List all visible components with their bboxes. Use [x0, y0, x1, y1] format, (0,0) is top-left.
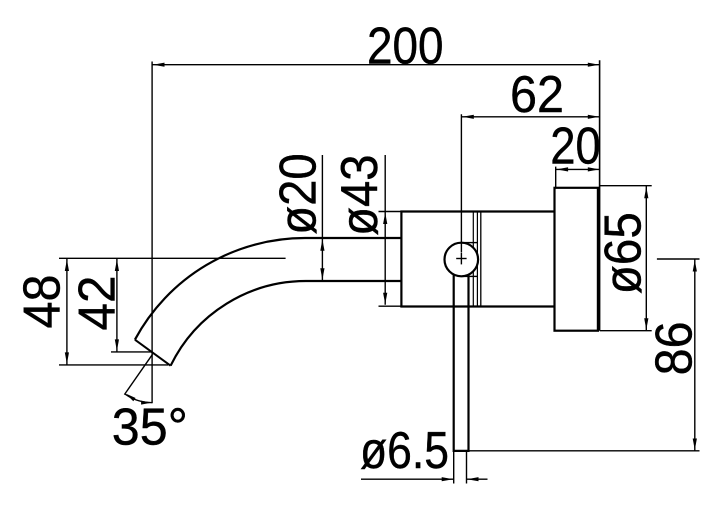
35deg axis line [124, 354, 152, 394]
86 bottom extension [469, 450, 700, 452]
o43 top extension [379, 211, 402, 213]
62 extension inside ball [460, 244, 462, 253]
20 left extension line [555, 167, 557, 188]
62 extension line to pivot center [460, 114, 462, 250]
spout upper outline [135, 238, 402, 340]
dimension line 48 [66, 259, 68, 365]
svg-text:200: 200 [367, 17, 444, 75]
svg-text:ø6.5: ø6.5 [360, 422, 449, 480]
o65 top extension [600, 185, 652, 187]
dimension line o65 [645, 186, 647, 331]
lever rod [454, 262, 469, 451]
48 bottom extension [59, 364, 168, 366]
svg-text:62: 62 [510, 66, 564, 124]
svg-text:ø20: ø20 [269, 153, 327, 235]
dimension line o20 [321, 155, 323, 280]
o65 bottom extension [600, 330, 652, 332]
valve body (side view) [401, 212, 554, 307]
svg-text:86: 86 [646, 321, 704, 375]
o43 bottom extension [379, 305, 402, 307]
dimension line 200 [152, 64, 600, 66]
body seam line B [476, 212, 478, 307]
35deg arc [125, 394, 152, 403]
pivot center cross [456, 258, 466, 260]
dimension line 86 [694, 259, 696, 450]
48-42 top extension [59, 257, 286, 259]
body seam line C [480, 212, 482, 307]
svg-text:42: 42 [68, 276, 126, 331]
dimension line o43 [384, 155, 386, 305]
86 top extension [657, 258, 700, 260]
wall line [599, 60, 601, 330]
spout lower outline [171, 281, 402, 366]
wall flange [555, 188, 598, 331]
dimension line o6.5 [361, 478, 454, 480]
42 bottom extension [111, 351, 152, 353]
svg-text:20: 20 [550, 117, 601, 175]
o6.5 right extension [466, 452, 468, 484]
dimension line 20 [556, 168, 600, 170]
cartridge tab bottom edge [462, 275, 478, 277]
handle pivot ball [445, 243, 479, 277]
svg-text:ø43: ø43 [331, 154, 389, 236]
svg-text:48: 48 [14, 275, 72, 329]
o6.5 left extension [453, 452, 455, 484]
cartridge tab top edge [462, 242, 478, 244]
svg-text:35°: 35° [112, 398, 188, 456]
spout outlet cut face [135, 340, 171, 366]
svg-text:ø65: ø65 [594, 212, 652, 294]
cartridge seam line A [472, 212, 474, 307]
200 left extension / 35deg reference line [151, 62, 153, 404]
dimension line 62 [461, 116, 599, 118]
dimension line 42 [116, 259, 118, 352]
